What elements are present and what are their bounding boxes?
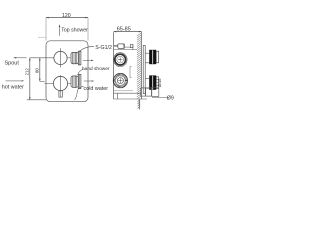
cold water label xyxy=(75,80,109,100)
svg-text:S-G1/2: S-G1/2 xyxy=(95,45,112,51)
bottom fitting behind wall xyxy=(141,87,159,96)
svg-text:Ø9: Ø9 xyxy=(167,95,174,101)
svg-text:212: 212 xyxy=(25,68,30,76)
top handle circle xyxy=(30,48,70,67)
dimension 80 xyxy=(35,58,45,82)
svg-text:hand shower: hand shower xyxy=(82,66,110,72)
spout label xyxy=(5,57,27,67)
bottom knob side view xyxy=(145,75,159,89)
upper diverter knob xyxy=(71,51,81,65)
dimension 65-85 side view xyxy=(114,26,142,32)
svg-text:120: 120 xyxy=(62,13,71,19)
bottom outlet pipe side view xyxy=(114,91,147,99)
top outlet fitting side view xyxy=(114,44,137,50)
hot water label xyxy=(2,80,24,90)
diameter 9 leader xyxy=(152,95,174,101)
svg-text:80: 80 xyxy=(35,68,40,73)
body edge between ports xyxy=(130,67,132,78)
trim plate edge side view xyxy=(143,45,145,93)
top shower label xyxy=(59,24,88,36)
valve body back line xyxy=(113,32,115,99)
hidden reference line left of plate xyxy=(38,36,46,38)
lower diverter knob xyxy=(71,75,81,89)
svg-text:hot water: hot water xyxy=(2,85,24,91)
svg-text:Ø45: Ø45 xyxy=(157,78,162,87)
wall line below outlet xyxy=(138,99,140,109)
wall section hatching xyxy=(137,32,142,100)
svg-text:Top shower: Top shower xyxy=(61,28,88,34)
trim plate front view xyxy=(46,41,88,102)
dimension 120 top xyxy=(46,13,88,40)
bottom handle circle xyxy=(45,75,71,97)
S-G1/2 label xyxy=(79,45,112,52)
top knob side view xyxy=(145,50,159,64)
svg-text:65-85: 65-85 xyxy=(117,26,131,32)
bottom port circle side view xyxy=(113,73,127,87)
top port circle side view xyxy=(113,53,127,67)
svg-text:cold water: cold water xyxy=(84,86,109,92)
hand shower label xyxy=(78,60,110,75)
svg-text:Spout: Spout xyxy=(5,61,20,67)
dimension 212 left xyxy=(25,58,47,100)
